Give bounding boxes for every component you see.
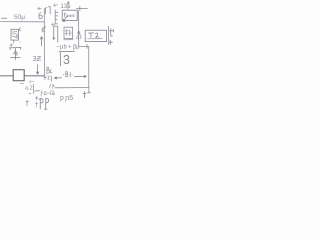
block U3 top edge <box>59 50 74 52</box>
plus tick on wire <box>79 6 81 11</box>
dash top-left of a.2 <box>20 83 23 85</box>
wire stub down with tick <box>87 88 90 93</box>
minus sign label <box>2 17 7 19</box>
ground G1 bottom bar <box>11 57 21 59</box>
apostrophe mark <box>50 84 51 88</box>
U4 inner scribble <box>12 32 19 39</box>
ground G1 loop 4 <box>14 51 18 56</box>
svg-text:3Ƶ: 3Ƶ <box>33 54 42 63</box>
dimension label B <box>64 72 73 78</box>
block U4 <box>11 29 19 40</box>
label t <box>110 29 114 37</box>
label PP <box>39 98 49 109</box>
P2 underline <box>88 38 103 40</box>
current arrow up <box>40 37 42 46</box>
plus mark <box>53 4 57 7</box>
wire main vertical <box>43 9 45 77</box>
tick above bottom wire <box>53 85 55 89</box>
svg-text:13μ: 13μ <box>61 4 72 10</box>
label t bottom right <box>83 92 86 98</box>
dash before Fa <box>35 90 40 92</box>
U2 inner scribble <box>65 30 71 36</box>
faint dash below wire <box>30 80 34 83</box>
wire right vertical upper <box>78 11 80 47</box>
wire bottom horizontal <box>55 87 89 89</box>
svg-text:a.2: a.2 <box>25 86 33 92</box>
tick below a.2 <box>26 101 29 106</box>
ground G1 top bar <box>10 48 21 50</box>
current arrow down <box>36 65 38 75</box>
plus small <box>35 96 38 99</box>
ground G1 stem <box>15 48 17 57</box>
label 6 prime <box>42 26 45 31</box>
dimension arrow B <box>54 77 61 79</box>
block U3 left edge <box>59 52 61 66</box>
capacitor C1 plates <box>53 26 55 39</box>
component E ticks <box>55 10 58 24</box>
wire long right vertical <box>88 47 90 88</box>
tick left of PP <box>36 102 38 107</box>
U1 inner label <box>64 13 74 17</box>
wire top-right horizontal <box>77 7 88 9</box>
U2 double bottom <box>64 39 73 41</box>
plus mark lower right <box>109 40 112 44</box>
plus tick at corner <box>86 44 88 48</box>
wire right vertical far <box>108 26 110 44</box>
label Be <box>47 67 52 74</box>
tick right of a.2 <box>29 84 34 94</box>
plus mark left <box>10 42 21 47</box>
svg-text:50μ: 50μ <box>14 14 25 21</box>
svg-text:−µb + βμ: −µb + βμ <box>57 45 81 51</box>
label 4 right of U2 <box>78 30 81 35</box>
block U2 <box>64 27 73 38</box>
U4 bottom tick <box>13 41 15 44</box>
arrow at U1 output <box>63 17 67 22</box>
svg-text:4: 4 <box>76 35 80 42</box>
block P2 <box>85 30 106 41</box>
P2 inner label T2 <box>89 33 99 38</box>
capacitor gate marks <box>45 8 47 14</box>
wire to node <box>24 75 44 77</box>
svg-text:ƿ ɲ5: ƿ ɲ5 <box>60 95 73 102</box>
block U1 <box>62 10 77 20</box>
wire mid horizontal to right <box>79 45 89 47</box>
resistor R1 <box>13 70 24 81</box>
wire top-left horizontal <box>1 21 45 23</box>
label plus j <box>44 76 52 82</box>
scribble E4 <box>52 23 57 27</box>
svg-text:3: 3 <box>63 53 70 67</box>
wire bottom-left horizontal <box>0 75 13 77</box>
node scribble 6 <box>38 7 42 10</box>
label c at U4 corner <box>19 28 21 31</box>
svg-text:ƒɑ−ſā: ƒɑ−ſā <box>40 91 56 97</box>
